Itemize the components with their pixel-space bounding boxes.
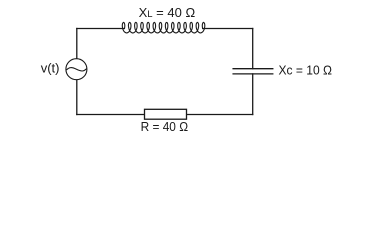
svg-text:R = 40 Ω: R = 40 Ω bbox=[141, 119, 189, 134]
inductor L1 coil bbox=[122, 22, 205, 33]
capacitor C1 top plate bbox=[233, 68, 273, 70]
wire left bbox=[76, 29, 78, 115]
wire top-left segment bbox=[77, 28, 125, 30]
svg-text:Xc = 10 Ω: Xc = 10 Ω bbox=[279, 63, 333, 78]
wire right upper (to capacitor top plate) bbox=[252, 29, 254, 69]
wire bottom bbox=[77, 114, 253, 116]
wire right lower (capacitor to bottom) bbox=[252, 74, 254, 115]
wire top-right segment bbox=[203, 28, 253, 30]
capacitor C1 bottom plate bbox=[233, 73, 273, 75]
source V1 circle bbox=[66, 59, 87, 80]
resistor R1 box bbox=[145, 109, 187, 119]
source V1 sine wave bbox=[67, 68, 86, 71]
svg-text:v(t): v(t) bbox=[41, 60, 60, 75]
svg-text:XL = 40 Ω: XL = 40 Ω bbox=[139, 5, 196, 20]
